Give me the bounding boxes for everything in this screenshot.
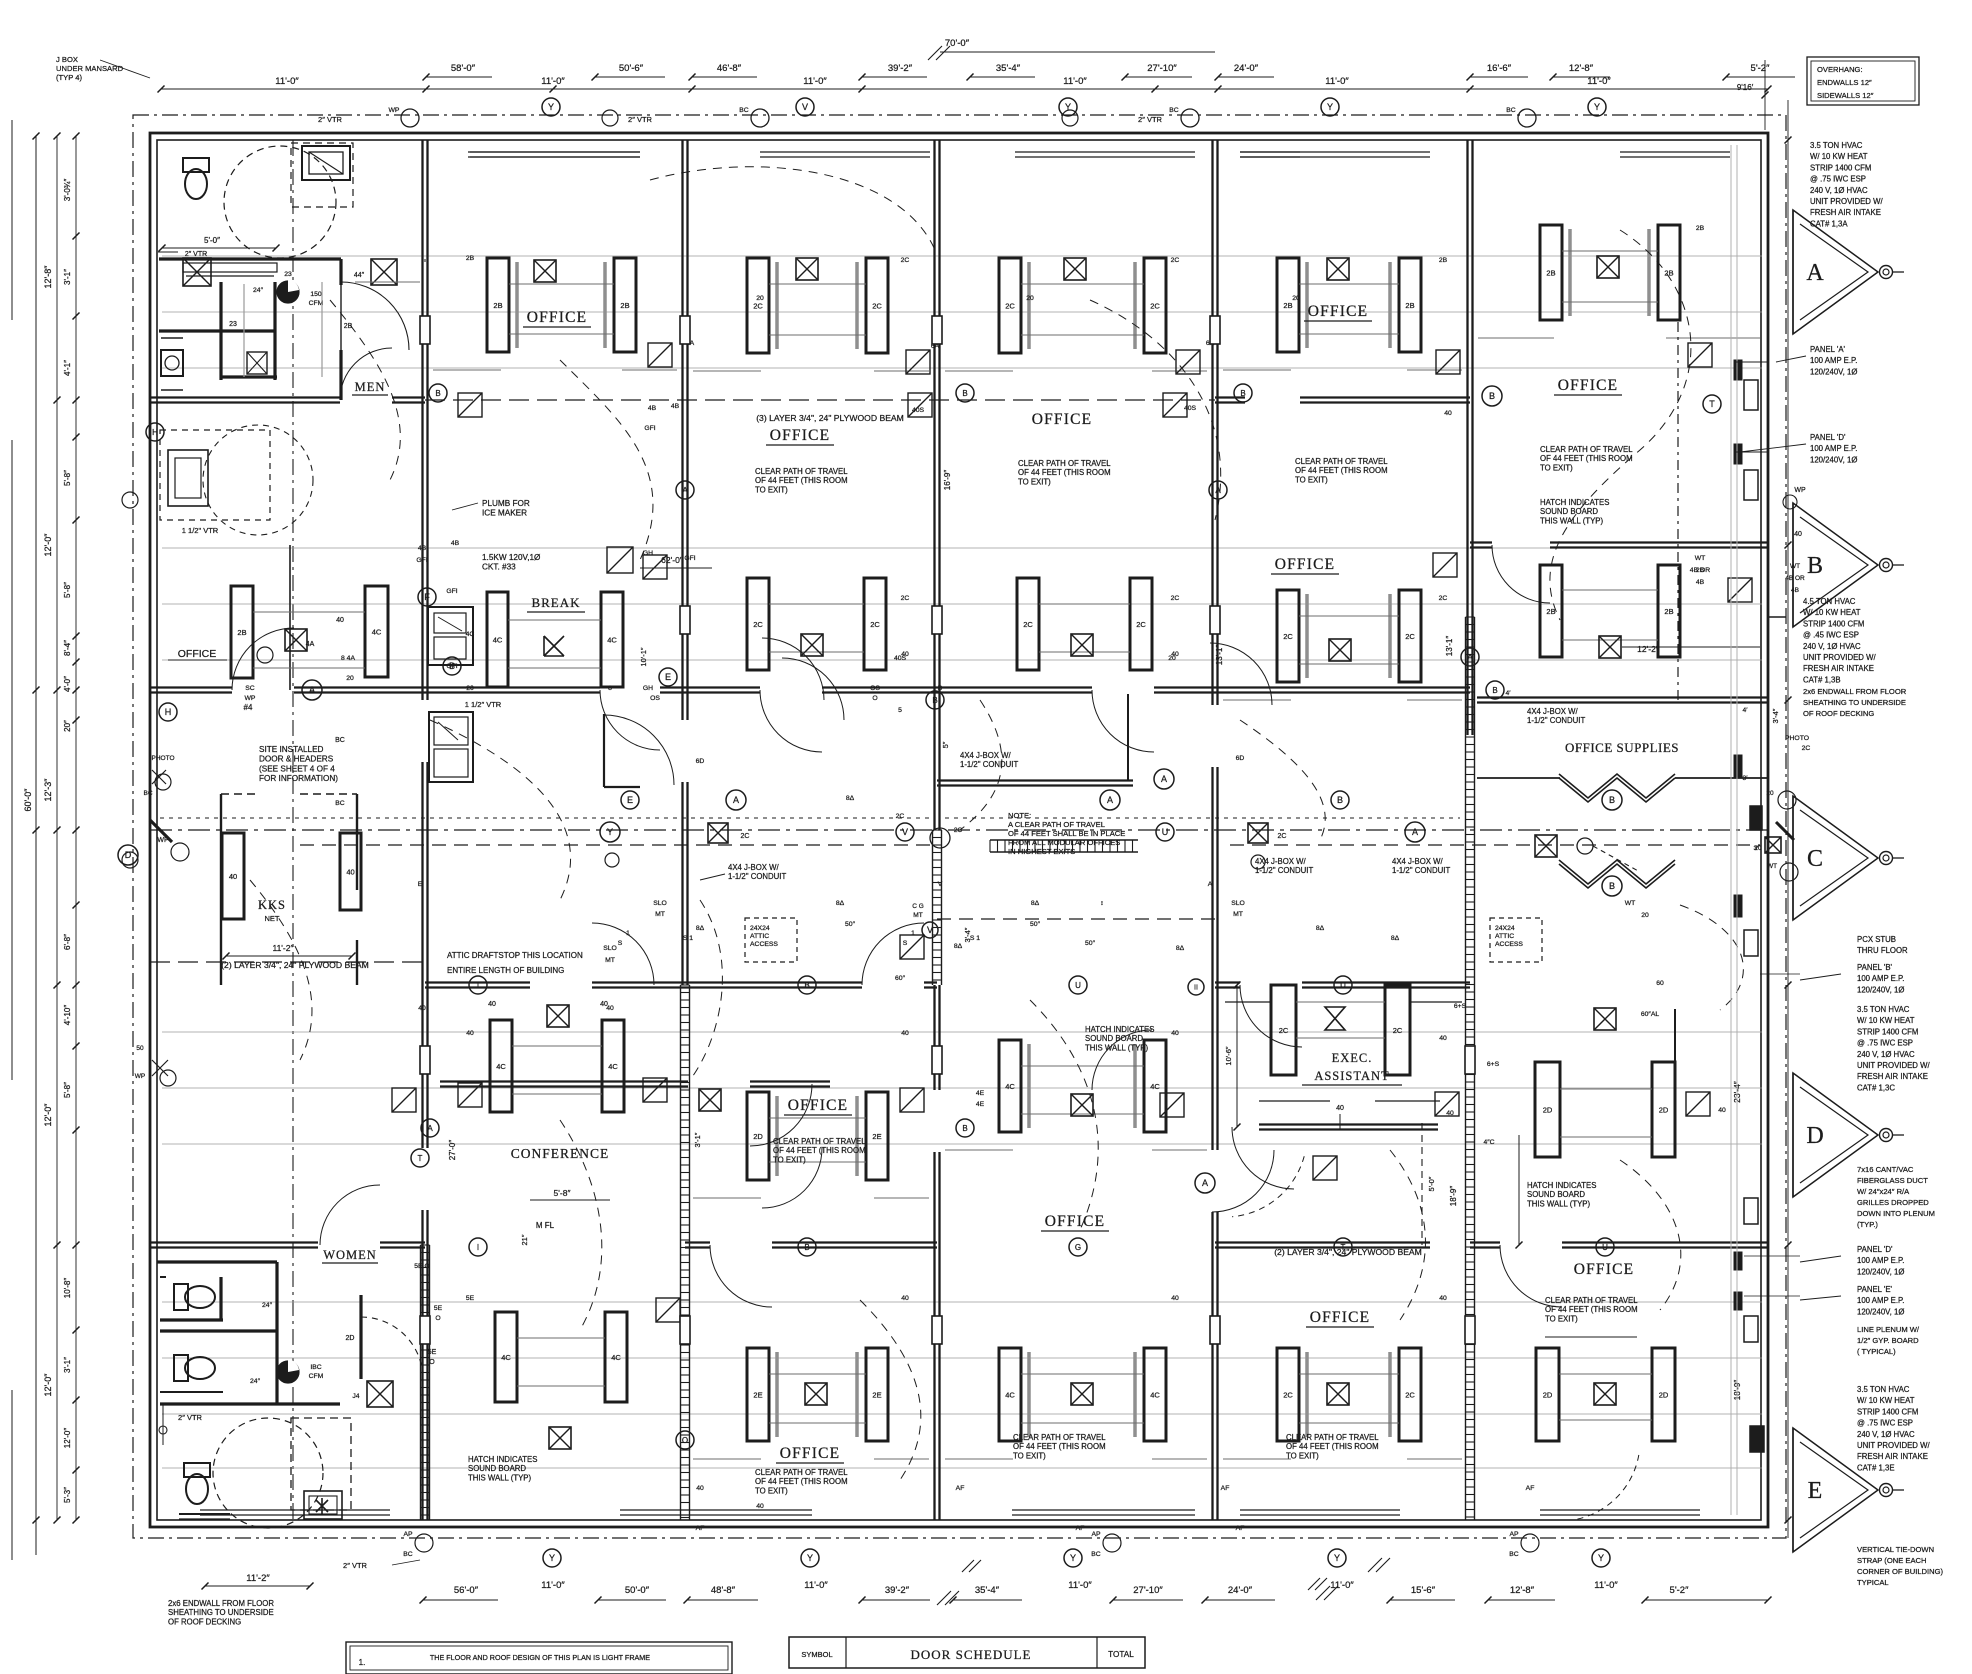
wall women north y=1245 [150, 1241, 318, 1243]
svg-text:10'-8″: 10'-8″ [63, 1278, 72, 1299]
module wall x=685 [681, 140, 683, 720]
longitudinal marriage line y=830 [150, 829, 1768, 831]
svg-text:12'-0″: 12'-0″ [43, 533, 53, 557]
svg-text:12'-2″: 12'-2″ [1637, 644, 1659, 654]
exec assistant room [1271, 985, 1296, 1075]
svg-text:TYPICAL: TYPICAL [1857, 1578, 1889, 1587]
svg-text:CONFERENCE: CONFERENCE [511, 1146, 610, 1161]
svg-text:40: 40 [1439, 1295, 1447, 1302]
module wall x=1215 [1211, 140, 1213, 705]
svg-text:ATTIC DRAFTSTOP THIS LOCATION: ATTIC DRAFTSTOP THIS LOCATION [447, 951, 583, 960]
svg-text:8Δ: 8Δ [1316, 925, 1325, 932]
svg-text:1: 1 [626, 930, 630, 937]
svg-text:3.5 TON HVAC: 3.5 TON HVAC [1810, 141, 1863, 150]
svg-text:SOUND BOARD: SOUND BOARD [1085, 1034, 1143, 1043]
svg-text:40S: 40S [894, 655, 907, 662]
svg-text:15'-6″: 15'-6″ [1411, 1585, 1436, 1596]
svg-text:E: E [627, 795, 633, 805]
men 44 xbox [371, 259, 397, 285]
men floor drain [247, 352, 267, 374]
svg-text:2C: 2C [1136, 620, 1146, 629]
svg-text:FRESH AIR INTAKE: FRESH AIR INTAKE [1810, 208, 1881, 217]
svg-text:B: B [804, 1243, 809, 1252]
svg-text:Y: Y [1598, 1553, 1604, 1563]
svg-text:E: E [665, 672, 671, 682]
svg-text:OFFICE: OFFICE [527, 309, 588, 326]
svg-text:BC: BC [1169, 107, 1179, 114]
svg-text:Y: Y [548, 102, 554, 112]
svg-text:4E: 4E [976, 1090, 985, 1097]
svg-text:O: O [429, 1359, 435, 1366]
svg-text:8'-4″: 8'-4″ [63, 640, 72, 656]
office B1-col6 extras [1677, 322, 1679, 700]
svg-text:MT: MT [655, 911, 665, 918]
svg-text:46'-8″: 46'-8″ [717, 63, 742, 74]
desks B2-col4 [1017, 578, 1039, 670]
svg-text:10'-1″: 10'-1″ [639, 647, 648, 666]
svg-text:ENTIRE LENGTH OF BUILDING: ENTIRE LENGTH OF BUILDING [447, 966, 564, 975]
wall kks north y=794 [221, 793, 260, 795]
wall kks east x=357 [356, 794, 358, 890]
more wall inner lines [760, 151, 930, 153]
svg-text:DOOR & HEADERS: DOOR & HEADERS [259, 755, 334, 764]
svg-text:4B OR: 4B OR [1785, 575, 1805, 582]
svg-text:S 1: S 1 [970, 935, 980, 942]
men north shelf wall [159, 257, 341, 260]
svg-text:21″: 21″ [520, 1234, 529, 1245]
svg-text:2B: 2B [1696, 225, 1705, 232]
svg-text:35'-4″: 35'-4″ [975, 1585, 1000, 1596]
svg-text:TO EXIT): TO EXIT) [755, 485, 788, 494]
svg-text:A: A [733, 795, 739, 805]
svg-text:A: A [682, 486, 688, 495]
svg-text:100 AMP E.P.: 100 AMP E.P. [1857, 1296, 1904, 1305]
svg-text:11'-0″: 11'-0″ [1587, 76, 1611, 87]
svg-text:GH: GH [643, 550, 653, 557]
office B1-col4 top half [999, 258, 1021, 353]
svg-text:G: G [1075, 1243, 1081, 1252]
svg-text:240 V, 1Ø HVAC: 240 V, 1Ø HVAC [1810, 186, 1868, 195]
svg-text:TO EXIT): TO EXIT) [1013, 1451, 1046, 1460]
svg-text:16'-9″: 16'-9″ [943, 470, 952, 491]
svg-text:20″: 20″ [63, 720, 72, 732]
svg-text:STRIP 1400 CFM: STRIP 1400 CFM [1810, 163, 1871, 172]
interior reference line x=293 [292, 140, 294, 1520]
svg-text:PANEL 'B': PANEL 'B' [1857, 963, 1893, 972]
office supplies zigzag door [1559, 778, 1675, 802]
women misc circles [159, 1426, 167, 1434]
svg-text:2B: 2B [1546, 607, 1555, 616]
svg-text:WT: WT [1790, 563, 1800, 570]
wall col3 south y=690 [685, 686, 760, 688]
corridor dashline [300, 844, 930, 846]
svg-text:A: A [1107, 795, 1113, 805]
svg-text:FIBERGLASS DUCT: FIBERGLASS DUCT [1857, 1176, 1928, 1185]
svg-text:A CLEAR PATH OF TRAVEL: A CLEAR PATH OF TRAVEL [1008, 820, 1105, 829]
svg-text:AF: AF [1236, 1525, 1245, 1532]
svg-text:B: B [435, 389, 440, 398]
svg-text:4C: 4C [607, 636, 617, 645]
svg-text:3.5 TON HVAC: 3.5 TON HVAC [1857, 1385, 1910, 1394]
svg-text:8Δ: 8Δ [836, 900, 845, 907]
svg-text:40S: 40S [912, 407, 925, 414]
svg-text:4B: 4B [418, 545, 427, 552]
svg-text:PANEL 'D': PANEL 'D' [1810, 433, 1846, 442]
svg-text:2B: 2B [237, 628, 246, 637]
svg-text:2B: 2B [1405, 301, 1414, 310]
svg-text:4A: 4A [306, 641, 315, 648]
svg-text:4'-10″: 4'-10″ [63, 1005, 72, 1026]
svg-text:4C: 4C [608, 1062, 618, 1071]
second zigzag [1559, 864, 1675, 888]
supplies xbox [1535, 835, 1557, 857]
svg-text:MT: MT [913, 912, 922, 919]
svg-text:V: V [927, 925, 933, 935]
svg-text:5'-8″: 5'-8″ [63, 470, 72, 486]
wall circles [122, 492, 138, 508]
svg-text:OFFICE: OFFICE [770, 427, 831, 444]
svg-text:BC: BC [335, 737, 345, 744]
office B5-col4 [999, 1348, 1021, 1441]
svg-text:40: 40 [696, 1485, 704, 1492]
svg-text:WP: WP [135, 1073, 145, 1080]
svg-text:BC: BC [335, 800, 345, 807]
svg-text:BC: BC [1091, 1551, 1101, 1558]
module wall x=685 hatched [680, 985, 682, 1520]
men lavatory [302, 146, 350, 180]
exterior wall inner lines [468, 151, 640, 153]
svg-text:B: B [804, 981, 809, 990]
svg-text:UNDER MANSARD: UNDER MANSARD [56, 64, 124, 73]
svg-text:OFFICE: OFFICE [1045, 1213, 1106, 1230]
svg-text:2E: 2E [872, 1391, 881, 1400]
svg-text:5'-2″: 5'-2″ [1670, 1585, 1690, 1596]
women fan [277, 1361, 299, 1383]
svg-text:120/240V, 1Ø: 120/240V, 1Ø [1810, 367, 1857, 376]
svg-text:OS: OS [870, 685, 880, 692]
svg-text:4C: 4C [372, 628, 382, 637]
svg-text:ACCESS: ACCESS [750, 941, 778, 948]
svg-text:PHOTO: PHOTO [152, 755, 175, 762]
svg-text:2B: 2B [1696, 567, 1705, 574]
svg-text:U: U [1075, 981, 1081, 990]
plenum gray lines [1730, 145, 1732, 1515]
women wc toilet [184, 1463, 210, 1504]
svg-text:240 V, 1Ø HVAC: 240 V, 1Ø HVAC [1803, 642, 1861, 651]
svg-text:V: V [802, 102, 808, 112]
svg-text:24X24: 24X24 [1495, 925, 1515, 932]
office B1-col5 [1277, 258, 1299, 352]
corridor circles [600, 822, 620, 842]
svg-text:120/240V, 1Ø: 120/240V, 1Ø [1857, 1307, 1904, 1316]
svg-text:WOMEN: WOMEN [323, 1248, 377, 1262]
svg-text:2E: 2E [753, 1391, 762, 1400]
office B5-col2 desks [495, 1312, 517, 1402]
detail triangle E [1793, 1428, 1878, 1552]
svg-text:E: E [1808, 1478, 1823, 1504]
svg-text:( TYPICAL): ( TYPICAL) [1857, 1347, 1896, 1356]
svg-text:UNIT PROVIDED W/: UNIT PROVIDED W/ [1857, 1441, 1930, 1450]
svg-text:4′: 4′ [1742, 707, 1748, 714]
svg-text:2B: 2B [466, 255, 475, 262]
svg-text:@ .75 IWC ESP: @ .75 IWC ESP [1857, 1419, 1913, 1428]
svg-text:B: B [1807, 553, 1823, 579]
office B4-col3 [747, 1092, 769, 1180]
svg-text:AF: AF [1221, 1485, 1230, 1492]
svg-text:2C: 2C [872, 302, 882, 311]
svg-text:100 AMP E.P.: 100 AMP E.P. [1810, 444, 1857, 453]
svg-text:2D: 2D [1659, 1391, 1669, 1400]
svg-text:SOUND BOARD: SOUND BOARD [1527, 1190, 1585, 1199]
svg-text:HATCH INDICATES: HATCH INDICATES [1085, 1025, 1154, 1034]
break fridge [429, 712, 473, 782]
right wall dim line [1787, 100, 1789, 1538]
office B5-col3 [747, 1348, 769, 1441]
svg-text:6+S: 6+S [1454, 1003, 1467, 1010]
svg-text:B: B [1240, 389, 1245, 398]
svg-text:VERTICAL TIE-DOWN: VERTICAL TIE-DOWN [1857, 1545, 1934, 1554]
svg-text:(SEE SHEET 4 OF 4: (SEE SHEET 4 OF 4 [259, 764, 335, 773]
office B1-col6 [1540, 225, 1562, 320]
svg-text:2C: 2C [753, 302, 763, 311]
clear path dashed curves [650, 167, 935, 250]
svg-text:OF 44 FEET (THIS ROOM: OF 44 FEET (THIS ROOM [755, 476, 848, 485]
svg-text:W/ 10 KW HEAT: W/ 10 KW HEAT [1857, 1396, 1915, 1405]
svg-text:120/240V, 1Ø: 120/240V, 1Ø [1857, 985, 1904, 994]
wall kks west x=221 [220, 794, 222, 985]
svg-text:TO EXIT): TO EXIT) [1540, 463, 1573, 472]
svg-text:62'-0″: 62'-0″ [661, 555, 683, 565]
svg-text:4B: 4B [671, 403, 680, 410]
svg-text:2D: 2D [1659, 1106, 1669, 1115]
svg-text:8: 8 [608, 685, 612, 692]
svg-text:50″: 50″ [1085, 940, 1096, 947]
svg-text:OFFICE: OFFICE [1308, 303, 1369, 320]
svg-text:OFFICE SUPPLIES: OFFICE SUPPLIES [1565, 740, 1679, 755]
svg-text:2C: 2C [1802, 745, 1811, 752]
svg-text:F: F [424, 592, 430, 602]
svg-text:SLO: SLO [653, 900, 667, 907]
svg-text:5″: 5″ [941, 741, 950, 748]
svg-text:SITE INSTALLED: SITE INSTALLED [259, 745, 324, 754]
svg-text:5'-8″: 5'-8″ [63, 1082, 72, 1098]
svg-text:20: 20 [1292, 295, 1300, 302]
svg-text:11'-0″: 11'-0″ [803, 76, 827, 87]
svg-text:UNIT PROVIDED W/: UNIT PROVIDED W/ [1857, 1061, 1930, 1070]
svg-text:40: 40 [346, 868, 354, 877]
svg-text:CORNER OF BUILDING): CORNER OF BUILDING) [1857, 1567, 1944, 1576]
svg-text:3'-1″: 3'-1″ [63, 269, 72, 285]
svg-text:27'-10″: 27'-10″ [1133, 1585, 1163, 1596]
plywood beam line y=400 [425, 399, 1215, 401]
scatter circled letters [429, 384, 447, 402]
svg-text:TO EXIT): TO EXIT) [1545, 1314, 1578, 1323]
svg-text:1-1/2" CONDUIT: 1-1/2" CONDUIT [960, 760, 1018, 769]
svg-text:E: E [418, 881, 423, 888]
svg-text:OF 44 FEET SHALL BE IN PLACE: OF 44 FEET SHALL BE IN PLACE [1008, 829, 1125, 838]
svg-text:GFI: GFI [644, 425, 655, 432]
women stall2 toilet [174, 1355, 215, 1381]
svg-text:NET: NET [265, 914, 280, 923]
svg-text:1-1/2" CONDUIT: 1-1/2" CONDUIT [728, 872, 786, 881]
svg-text:4E: 4E [976, 1101, 985, 1108]
svg-text:40: 40 [229, 872, 237, 881]
svg-text:50'-6″: 50'-6″ [619, 63, 644, 74]
office B2-col5 [1277, 590, 1299, 682]
svg-text:DOWN INTO PLENUM: DOWN INTO PLENUM [1857, 1209, 1935, 1218]
svg-text:SIDEWALLS 12″: SIDEWALLS 12″ [1817, 91, 1874, 100]
svg-text:2C: 2C [870, 620, 880, 629]
svg-text:4X4 J-BOX W/: 4X4 J-BOX W/ [1392, 857, 1444, 866]
module wall x=1470 hatched [1465, 617, 1467, 1520]
svg-text:5'-3″: 5'-3″ [63, 1487, 72, 1503]
svg-text:39'-2″: 39'-2″ [885, 1585, 910, 1596]
svg-text:WP: WP [245, 695, 256, 702]
svg-text:D: D [1806, 1123, 1823, 1149]
svg-text:40: 40 [1439, 1035, 1447, 1042]
svg-text:8Δ: 8Δ [846, 795, 855, 802]
svg-text:1/2″ GYP. BOARD: 1/2″ GYP. BOARD [1857, 1336, 1919, 1345]
door schedule table [789, 1637, 1145, 1668]
svg-text:5'-8″: 5'-8″ [63, 582, 72, 598]
women east wall [359, 1295, 362, 1379]
men turning circle [224, 146, 336, 258]
svg-text:ASSISTANT: ASSISTANT [1314, 1069, 1389, 1083]
svg-text:8Δ: 8Δ [1031, 900, 1040, 907]
svg-text:T: T [418, 1154, 423, 1163]
svg-text:100 AMP E.P.: 100 AMP E.P. [1857, 974, 1904, 983]
svg-text:60″: 60″ [895, 975, 906, 982]
svg-text:11'-0″: 11'-0″ [275, 76, 299, 87]
svg-text:I: I [477, 981, 479, 990]
svg-text:B: B [1609, 881, 1615, 891]
svg-text:B: B [449, 661, 455, 671]
svg-text:2″ VTR: 2″ VTR [318, 115, 342, 124]
svg-text:ICE MAKER: ICE MAKER [482, 509, 527, 518]
svg-text:SHEATHING TO UNDERSIDE: SHEATHING TO UNDERSIDE [1803, 698, 1906, 707]
svg-text:4C: 4C [1150, 1082, 1160, 1091]
svg-text:TO EXIT): TO EXIT) [1295, 475, 1328, 484]
svg-text:GFI: GFI [446, 588, 457, 595]
svg-text:58'-0″: 58'-0″ [451, 63, 476, 74]
wall band4 north col2 y=985 [425, 981, 530, 983]
svg-text:FOR INFORMATION): FOR INFORMATION) [259, 774, 338, 783]
svg-text:40: 40 [1171, 1295, 1179, 1302]
wall band4 north col5 y=985 [1215, 981, 1240, 983]
svg-text:40: 40 [1446, 1110, 1454, 1117]
svg-text:Y: Y [1594, 102, 1600, 112]
svg-text:3'-4″: 3'-4″ [1771, 708, 1780, 723]
svg-text:2C: 2C [1439, 595, 1448, 602]
tri C circles [1778, 791, 1796, 809]
svg-text:120/240V, 1Ø: 120/240V, 1Ø [1810, 455, 1857, 464]
module wall x=1470 upper [1466, 140, 1468, 735]
svg-text:2x6 ENDWALL FROM FLOOR: 2x6 ENDWALL FROM FLOOR [1803, 687, 1907, 696]
svg-text:OFFICE: OFFICE [1558, 377, 1619, 394]
wall office6 south y=545 [1470, 541, 1492, 543]
svg-text:PHOTO: PHOTO [1785, 735, 1809, 742]
svg-text:16'-6″: 16'-6″ [1487, 63, 1512, 74]
svg-text:@ .75 IWC ESP: @ .75 IWC ESP [1857, 1039, 1913, 1048]
top dim 70ft [940, 51, 1215, 53]
svg-text:6D: 6D [696, 758, 705, 765]
svg-text:FRESH AIR INTAKE: FRESH AIR INTAKE [1803, 664, 1874, 673]
women jbox [367, 1381, 393, 1407]
svg-text:24'-0″: 24'-0″ [1228, 1585, 1253, 1596]
building overhang dashed outline [133, 115, 1786, 1538]
svg-text:MT: MT [1233, 911, 1243, 918]
svg-text:V: V [938, 881, 943, 888]
office B4-col4 [999, 1040, 1021, 1132]
svg-text:8Δ: 8Δ [696, 925, 705, 932]
svg-text:AF: AF [1076, 1525, 1085, 1532]
wall conference north y=1084 [440, 1080, 688, 1082]
svg-text:2C: 2C [954, 827, 963, 834]
svg-text:B: B [1337, 795, 1343, 805]
wall col5 south y=690 [1215, 686, 1470, 688]
svg-text:O: O [872, 695, 877, 702]
svg-text:Y: Y [1327, 102, 1333, 112]
svg-text:A: A [1806, 260, 1824, 286]
svg-text:2C: 2C [741, 833, 750, 840]
svg-text:2x6 ENDWALL FROM FLOOR: 2x6 ENDWALL FROM FLOOR [168, 1599, 274, 1608]
svg-text:12'-0″: 12'-0″ [63, 1428, 72, 1449]
svg-text:HATCH INDICATES: HATCH INDICATES [1527, 1181, 1596, 1190]
svg-text:CAT# 1,3B: CAT# 1,3B [1803, 675, 1841, 684]
wall office-supplies south y=778 [1477, 777, 1560, 779]
svg-text:44″: 44″ [354, 272, 365, 279]
office B5-col5 [1277, 1348, 1299, 1441]
right wall fixtures [1744, 380, 1758, 410]
svg-text:FRESH AIR INTAKE: FRESH AIR INTAKE [1857, 1452, 1928, 1461]
svg-text:↕: ↕ [1100, 900, 1103, 907]
svg-text:8Δ: 8Δ [954, 943, 963, 950]
svg-text:OF 44 FEET (THIS ROOM: OF 44 FEET (THIS ROOM [1018, 468, 1111, 477]
svg-text:20: 20 [466, 685, 474, 692]
svg-text:OF ROOF DECKING: OF ROOF DECKING [168, 1617, 241, 1626]
svg-text:2C: 2C [901, 595, 910, 602]
women stall1 toilet [174, 1284, 215, 1310]
svg-text:THIS WALL (TYP): THIS WALL (TYP) [1085, 1043, 1149, 1052]
svg-text:A: A [1412, 827, 1418, 837]
svg-text:SOUND BOARD: SOUND BOARD [1540, 507, 1598, 516]
svg-text:THE FLOOR AND ROOF DESIGN OF T: THE FLOOR AND ROOF DESIGN OF THIS PLAN I… [430, 1653, 650, 1662]
svg-text:5'-8″: 5'-8″ [554, 1188, 571, 1198]
svg-text:Y: Y [1334, 1553, 1340, 1563]
svg-text:1.5KW 120V,1Ø: 1.5KW 120V,1Ø [482, 553, 541, 562]
svg-text:OF 44 FEET (THIS ROOM: OF 44 FEET (THIS ROOM [1540, 454, 1633, 463]
svg-text:2C: 2C [1005, 302, 1015, 311]
scatter boxes [458, 393, 482, 417]
svg-text:24X24: 24X24 [750, 925, 770, 932]
svg-text:2″ VTR: 2″ VTR [185, 251, 207, 258]
wall col4 south y=690 [937, 686, 1092, 688]
svg-text:PANEL 'A': PANEL 'A' [1810, 345, 1846, 354]
svg-text:V: V [902, 827, 908, 837]
svg-text:2″ VTR: 2″ VTR [178, 1413, 202, 1422]
svg-text:CLEAR PATH OF TRAVEL: CLEAR PATH OF TRAVEL [1018, 459, 1111, 468]
svg-text:4C: 4C [493, 636, 503, 645]
svg-text:4C: 4C [1005, 1082, 1015, 1091]
plywood beam line y=962 [150, 961, 425, 963]
wall band4 north col3 y=985 [685, 981, 862, 983]
svg-text:6D: 6D [1236, 755, 1245, 762]
svg-text:40: 40 [1718, 1107, 1726, 1114]
wall men room south y=400 [150, 396, 340, 398]
svg-text:40: 40 [466, 1030, 474, 1037]
svg-text:2D: 2D [753, 1132, 763, 1141]
svg-text:H: H [152, 428, 158, 437]
